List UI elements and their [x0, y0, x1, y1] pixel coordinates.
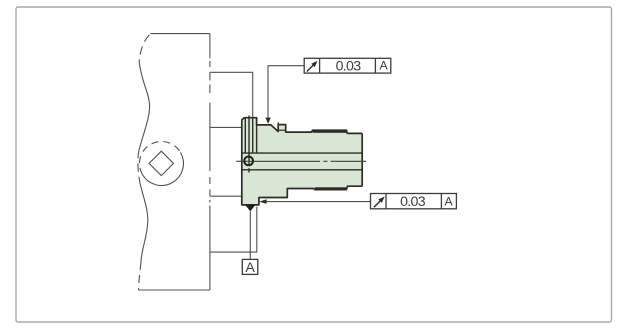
top FCF box	[304, 58, 391, 73]
center hole marker circle	[244, 157, 253, 166]
bottom FCF box	[371, 194, 457, 209]
svg-text:0.03: 0.03	[336, 59, 362, 75]
bottom FCF runout symbol	[374, 200, 381, 207]
flange right edge internal line	[256, 125, 258, 153]
projection line plate to flange lower	[210, 195, 242, 197]
svg-text:A: A	[245, 260, 255, 276]
leader to top FCF	[268, 66, 304, 123]
hole circle (dashed upper-left, solid lower-right)	[142, 152, 183, 185]
knurl band top	[313, 130, 347, 133]
flange vertical line 3	[252, 118, 254, 153]
knurl band bottom	[315, 187, 347, 190]
bore line lower	[242, 169, 362, 171]
part body (green)	[242, 118, 362, 205]
flange vertical line 2	[248, 116, 250, 173]
top FCF runout symbol	[307, 65, 314, 72]
projection line upper rectangle	[210, 72, 253, 118]
fixture plate bottom edge	[139, 289, 210, 291]
datum feature triangle	[245, 205, 255, 212]
svg-text:A: A	[445, 194, 454, 208]
boss bottom line	[278, 129, 285, 131]
bore line upper	[242, 152, 362, 154]
flange vertical line 1	[244, 118, 246, 153]
diamond in hole	[149, 151, 173, 175]
datum box A	[242, 259, 257, 274]
svg-text:A: A	[380, 59, 389, 73]
svg-text:0.03: 0.03	[400, 194, 426, 210]
projection tick to flange left	[210, 126, 242, 128]
leader to bottom FCF	[264, 201, 371, 203]
boss witness tick	[277, 122, 279, 126]
leader arrowhead left	[259, 199, 266, 204]
fixture plate wavy break line	[139, 34, 150, 62]
centerline	[236, 160, 366, 162]
leader arrowhead down	[265, 118, 270, 124]
fixture plate right edge	[209, 34, 211, 290]
fixture plate top edge	[150, 33, 210, 35]
datum leader line	[249, 211, 251, 259]
datum extension connector	[210, 207, 257, 252]
